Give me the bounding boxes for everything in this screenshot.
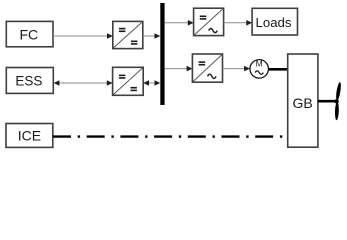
bidirectional wire DC/DC converter 2 to DC bus [143,80,160,86]
DC/DC converter 2 [113,67,144,95]
propeller [334,82,341,120]
svg-text:GB: GB [292,95,312,111]
wire DC/AC converter 2 to motor [223,66,250,72]
wire FC to DC/DC converter 1 [53,33,113,39]
svg-text:FC: FC [19,27,38,43]
shaft GB to propeller [318,100,336,103]
svg-text:ICE: ICE [18,127,41,143]
Loads box [252,8,297,35]
DC bus bar [160,3,164,105]
DC/AC converter 2 [192,54,222,82]
ICE box [6,124,53,148]
wire DC/AC converter 1 to Loads [224,20,253,26]
shaft motor to GB [269,68,289,71]
mechanical dash-dot link ICE to GB [53,135,282,137]
DC/DC converter 1 [113,21,143,48]
svg-text:Loads: Loads [256,15,292,30]
svg-text:ESS: ESS [15,73,42,88]
svg-text:M: M [256,59,263,69]
DC/AC converter 1 [194,8,224,35]
wire DC bus to DC/AC converter 2 [165,66,193,72]
wire DC bus to DC/AC converter 1 [165,20,194,26]
ESS box [6,68,53,94]
GB gearbox box [288,54,318,147]
bidirectional wire ESS to DC/DC converter 2 [54,80,113,86]
FC box [6,21,53,46]
wire DC/DC converter 1 to DC bus [143,33,161,39]
motor M [250,59,269,79]
